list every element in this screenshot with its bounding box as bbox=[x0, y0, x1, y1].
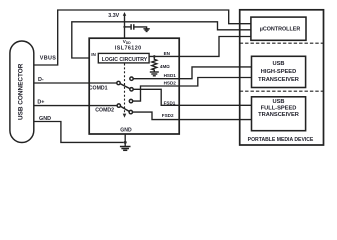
svg-text:HSD2: HSD2 bbox=[164, 80, 177, 85]
wire FSD2 bbox=[133, 112, 252, 120]
IC box ISL76120 bbox=[89, 38, 179, 134]
svg-text:ISL76120: ISL76120 bbox=[115, 45, 142, 51]
wire cap branch bbox=[125, 26, 131, 28]
ground (4M resistor) bbox=[150, 72, 159, 76]
svg-text:TRANSCEIVER: TRANSCEIVER bbox=[258, 77, 299, 83]
svg-text:LOGIC CIRCUITRY: LOGIC CIRCUITRY bbox=[102, 57, 148, 63]
uCONTROLLER box bbox=[251, 17, 306, 40]
capacitor C1 bbox=[130, 24, 132, 30]
svg-text:IN: IN bbox=[91, 52, 96, 57]
wire HSD1 bbox=[133, 67, 251, 79]
resistor R1 4MOhm bbox=[152, 56, 157, 71]
dashed separator 2 bbox=[240, 90, 324, 92]
wire EN net bbox=[149, 37, 251, 57]
USB connector stadium bbox=[10, 41, 34, 143]
svg-text:D+: D+ bbox=[37, 100, 44, 106]
ground (cap) bbox=[143, 29, 149, 32]
junction EN/resistor bbox=[153, 55, 156, 58]
logic circuitry box bbox=[98, 53, 149, 63]
svg-text:FULL-SPEED: FULL-SPEED bbox=[261, 105, 297, 111]
svg-text:4MΩ: 4MΩ bbox=[160, 64, 170, 69]
switch S1 throw HSD1 bbox=[130, 77, 133, 80]
svg-text:EN: EN bbox=[164, 51, 171, 56]
junction GND bbox=[124, 141, 127, 144]
svg-text:TRANSCEIVER: TRANSCEIVER bbox=[258, 112, 299, 118]
svg-text:GND: GND bbox=[39, 116, 51, 122]
switch S1 pole bbox=[117, 81, 120, 84]
dashed gang linkage bbox=[124, 64, 126, 115]
ground (main) bbox=[120, 147, 131, 151]
svg-text:PORTABLE MEDIA DEVICE: PORTABLE MEDIA DEVICE bbox=[248, 137, 314, 143]
svg-text:FSD2: FSD2 bbox=[162, 113, 174, 118]
svg-text:HIGH-SPEED: HIGH-SPEED bbox=[261, 69, 296, 75]
svg-text:VBUS: VBUS bbox=[40, 55, 56, 61]
switch S2 pole bbox=[117, 104, 120, 107]
svg-text:HSD1: HSD1 bbox=[164, 73, 177, 78]
wire HSD2 bbox=[133, 78, 252, 102]
svg-text:FSD1: FSD1 bbox=[164, 101, 176, 106]
switch S2 throw HSD2 bbox=[129, 99, 132, 102]
switch S1 throw FSD1 bbox=[130, 88, 133, 91]
wire GND from connector bbox=[34, 122, 124, 143]
svg-text:USB: USB bbox=[272, 99, 284, 105]
wire 3.3V supply bbox=[124, 15, 126, 38]
wire IC GND pin down bbox=[124, 134, 126, 146]
wire D+ to COMD2 bbox=[34, 105, 117, 107]
svg-text:D-: D- bbox=[38, 77, 44, 83]
switch S1 arm bbox=[120, 84, 130, 89]
USB full-speed transceiver box bbox=[252, 97, 306, 131]
wire FSD1 bbox=[133, 89, 251, 105]
switch S2 throw FSD2 bbox=[129, 110, 132, 113]
USB high-speed transceiver box bbox=[252, 56, 306, 87]
svg-text:GND: GND bbox=[120, 127, 132, 133]
svg-text:COMD1: COMD1 bbox=[89, 85, 108, 91]
dashed separator 1 bbox=[240, 42, 324, 44]
junction cap/3.3V bbox=[123, 26, 125, 28]
svg-text:USB CONNECTOR: USB CONNECTOR bbox=[18, 63, 25, 120]
svg-text:µCONTROLLER: µCONTROLLER bbox=[260, 27, 301, 33]
wire VBUS net bbox=[34, 10, 251, 65]
svg-text:USB: USB bbox=[272, 61, 284, 67]
3.3V arrow bbox=[123, 12, 126, 16]
svg-text:3.3V: 3.3V bbox=[108, 13, 119, 19]
portable media device box bbox=[240, 10, 324, 145]
wire IN net bbox=[72, 22, 251, 58]
switch S2 arm bbox=[120, 106, 129, 111]
wire D- to COMD1 bbox=[34, 82, 117, 84]
svg-text:COMD2: COMD2 bbox=[95, 107, 114, 113]
